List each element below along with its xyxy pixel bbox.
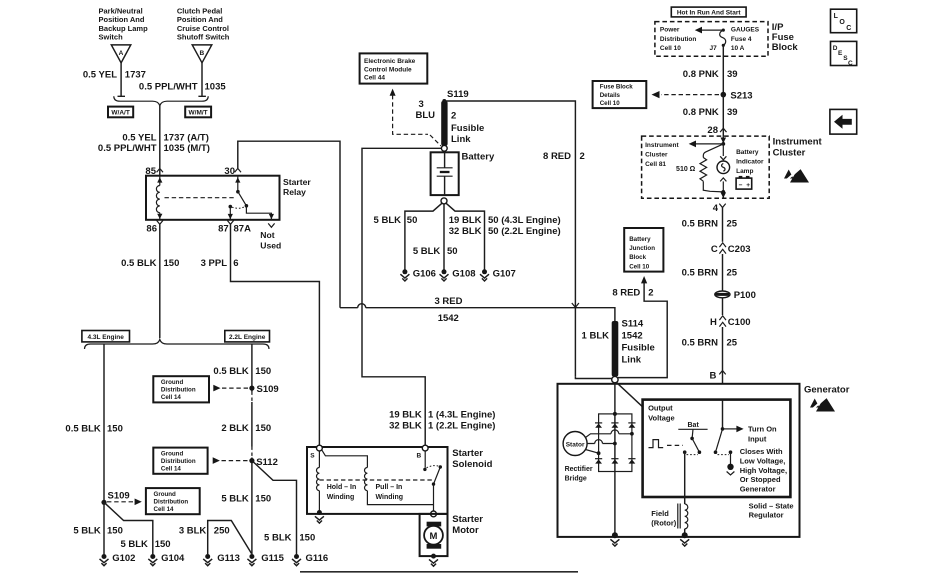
svg-text:C203: C203 — [728, 244, 751, 255]
svg-text:BLU: BLU — [416, 110, 436, 121]
svg-text:32 BLK: 32 BLK — [449, 226, 482, 237]
svg-text:Ground: Ground — [161, 450, 184, 457]
svg-text:G107: G107 — [493, 269, 516, 280]
label 19 BLK 1 (4.3L Engine) — [389, 409, 495, 420]
diode D4 (bottom left) — [595, 459, 602, 464]
svg-text:G102: G102 — [112, 553, 135, 564]
svg-text:5 BLK: 5 BLK — [264, 532, 292, 543]
ground G116 — [292, 553, 328, 566]
wire S112 to G116 — [252, 461, 297, 554]
svg-text:J7: J7 — [710, 45, 718, 52]
svg-text:Cell 10: Cell 10 — [629, 263, 650, 270]
starter motor terminal node — [431, 511, 437, 517]
I/P fuse block dashed box — [655, 22, 768, 57]
svg-text:25: 25 — [727, 337, 738, 348]
svg-text:Cell 81: Cell 81 — [645, 161, 666, 168]
ground G115 — [247, 553, 284, 566]
diode D3 (top right) — [628, 423, 635, 428]
svg-text:50 (4.3L Engine): 50 (4.3L Engine) — [488, 215, 561, 226]
svg-text:O: O — [839, 19, 845, 26]
svg-text:W/A/T: W/A/T — [111, 110, 129, 117]
svg-text:Control Module: Control Module — [364, 66, 412, 73]
GAUGES Fuse 4 10 A label — [731, 27, 760, 52]
svg-text:Solid – State: Solid – State — [749, 501, 794, 510]
svg-text:50 (2.2L Engine): 50 (2.2L Engine) — [488, 226, 561, 237]
wire from pin 30 up and over to 3 RED corner — [238, 141, 340, 308]
svg-text:G116: G116 — [306, 553, 329, 564]
svg-text:Not: Not — [260, 230, 274, 240]
node: fusible link lower terminal — [441, 145, 447, 151]
arrow to Power Distribution — [695, 27, 725, 34]
svg-text:86: 86 — [146, 224, 157, 235]
ground G107 — [480, 269, 516, 281]
svg-text:Switch: Switch — [99, 32, 124, 41]
svg-text:1737: 1737 — [125, 70, 146, 81]
svg-text:G108: G108 — [452, 269, 475, 280]
svg-text:8 RED: 8 RED — [543, 151, 571, 162]
I/P fuse block label — [772, 22, 799, 53]
svg-text:250: 250 — [214, 526, 230, 537]
svg-text:19 BLK: 19 BLK — [449, 215, 482, 226]
splice S213 with dashed reference — [652, 90, 753, 101]
svg-text:Regulator: Regulator — [749, 511, 784, 520]
wire battery top to 8 RED drop — [444, 101, 575, 377]
svg-text:Shutoff Switch: Shutoff Switch — [177, 32, 230, 41]
svg-text:1035 (M/T): 1035 (M/T) — [164, 143, 210, 154]
node: S119 junction dot — [442, 99, 446, 103]
svg-text:Winding: Winding — [327, 494, 355, 501]
svg-text:510 Ω: 510 Ω — [676, 166, 696, 173]
svg-text:0.5 YEL: 0.5 YEL — [122, 133, 156, 144]
generator box — [558, 384, 800, 537]
resistor 510 ohm — [676, 144, 723, 192]
ground G113 — [203, 553, 240, 566]
wire G113 branch — [208, 521, 252, 555]
wire S109 to G102 — [103, 502, 105, 554]
svg-text:150: 150 — [155, 539, 171, 550]
2.2L Engine tag — [225, 331, 270, 342]
label 5 BLK 150 (2.2L to G115) — [221, 493, 271, 504]
svg-text:0.5 BLK: 0.5 BLK — [213, 366, 249, 377]
generator main feed wire — [614, 383, 616, 414]
svg-text:Link: Link — [451, 134, 471, 145]
rectifier bridge box — [599, 414, 632, 472]
wire 1 BLK from 8 RED drop to S114 — [575, 377, 611, 379]
svg-text:2: 2 — [580, 151, 585, 162]
battery G: box — [431, 152, 459, 195]
wire 0.5 YEL 1737 from connector A — [118, 63, 126, 97]
brace joining A/B wires — [114, 96, 208, 106]
svg-text:0.8 PNK: 0.8 PNK — [683, 107, 719, 118]
relay pin 87 contact — [228, 205, 245, 220]
svg-text:Used: Used — [260, 240, 281, 250]
control square-wave symbol — [649, 440, 684, 448]
stator phase wire 1 — [586, 430, 634, 438]
connector A (Park/Neutral switch) — [111, 45, 131, 63]
fuse F4 symbol — [720, 30, 726, 45]
svg-text:S213: S213 — [730, 90, 752, 101]
svg-text:32 BLK: 32 BLK — [389, 421, 422, 432]
hold-in winding — [316, 451, 356, 512]
rectifier bridge label — [565, 466, 593, 483]
label 8 RED 2 (right side) — [543, 151, 585, 162]
fusible link S119 (thick bar) — [441, 101, 447, 146]
diode D6 (bottom right) — [628, 459, 635, 464]
wire P100 to C100 — [722, 298, 724, 315]
svg-text:Hold – In: Hold – In — [327, 484, 357, 491]
svg-text:50: 50 — [447, 246, 458, 257]
svg-text:Distribution: Distribution — [660, 36, 696, 43]
svg-text:C: C — [848, 60, 853, 67]
svg-text:0.5 BRN: 0.5 BRN — [682, 337, 719, 348]
svg-text:S119: S119 — [447, 89, 469, 100]
svg-text:Motor: Motor — [452, 525, 479, 536]
splice S109 (4.3L) — [101, 491, 129, 505]
svg-text:5 BLK: 5 BLK — [221, 493, 249, 504]
label 2 / Fusible Link — [451, 110, 484, 145]
Battery Junction Block Cell 10 box — [624, 228, 663, 272]
pin 30 — [224, 166, 241, 177]
label 5 BLK 50 (left) — [374, 215, 418, 226]
ground G102 — [100, 553, 136, 566]
rectifier bridge center leg — [614, 414, 616, 533]
svg-text:Instrument: Instrument — [645, 142, 679, 149]
svg-text:High Voltage,: High Voltage, — [740, 466, 787, 475]
svg-text:Low Voltage,: Low Voltage, — [740, 457, 786, 466]
svg-text:Relay: Relay — [283, 187, 306, 197]
label 0.8 PNK 39 (upper) — [683, 69, 738, 80]
starter motor box — [420, 514, 448, 556]
battery icon — [736, 176, 752, 189]
svg-text:Battery: Battery — [736, 149, 759, 156]
svg-text:150: 150 — [164, 258, 180, 269]
W/M/T tag — [185, 107, 211, 118]
svg-text:Cluster: Cluster — [773, 147, 806, 158]
wire battery to G106 — [405, 203, 442, 270]
label 5 BLK 150 (G116) — [264, 532, 315, 543]
svg-text:G115: G115 — [261, 553, 284, 564]
scan artifact line at bottom — [300, 571, 578, 573]
ground G104 — [148, 553, 185, 566]
label 5 BLK 150 (G104) — [120, 539, 170, 550]
svg-text:1542: 1542 — [438, 313, 459, 324]
starter solenoid box — [307, 447, 448, 514]
relay switch from pin 30 — [235, 176, 274, 220]
svg-text:Field: Field — [651, 509, 669, 518]
svg-text:G106: G106 — [413, 269, 436, 280]
svg-text:150: 150 — [255, 423, 271, 434]
4.3L Engine tag — [82, 331, 130, 342]
splice S109 (2.2L) — [249, 384, 278, 402]
label 0.5 BRN 25 (middle) — [682, 268, 738, 279]
dashed reference to Ground Distribution (4.3L S109) — [107, 499, 142, 506]
svg-text:Fuse Block: Fuse Block — [600, 84, 634, 91]
svg-text:0.5 YEL: 0.5 YEL — [83, 70, 117, 81]
svg-text:150: 150 — [299, 532, 315, 543]
svg-text:1 (2.2L Engine): 1 (2.2L Engine) — [428, 421, 495, 432]
W/A/T tag — [108, 107, 133, 118]
svg-text:H: H — [710, 317, 717, 328]
wire 0.5 BRN 25 (C203 to P100) — [722, 254, 724, 291]
field (rotor) winding — [678, 452, 688, 533]
svg-text:39: 39 — [727, 107, 738, 118]
Fuse Block Details Cell 10 box — [593, 81, 647, 108]
Bat contact — [678, 422, 707, 429]
battery indicator lamp — [717, 144, 730, 194]
svg-text:S114: S114 — [622, 319, 644, 330]
svg-text:Generator: Generator — [740, 484, 776, 493]
svg-text:Cluster: Cluster — [645, 152, 668, 159]
svg-text:1035: 1035 — [205, 82, 227, 93]
svg-text:Instrument: Instrument — [773, 136, 823, 147]
svg-text:Cell 10: Cell 10 — [600, 100, 621, 107]
svg-text:C: C — [711, 244, 718, 255]
svg-text:10 A: 10 A — [731, 45, 745, 52]
svg-text:Cell 14: Cell 14 — [161, 394, 182, 401]
engine harness brace — [85, 339, 270, 349]
svg-text:19 BLK: 19 BLK — [389, 409, 422, 420]
instrument cluster label — [773, 136, 823, 158]
svg-text:Details: Details — [600, 92, 621, 99]
svg-text:28: 28 — [707, 125, 718, 136]
connector C100 — [710, 316, 750, 328]
wire 0.5 BLK 150 from pin 86 to engine brace — [159, 224, 161, 338]
svg-text:P100: P100 — [734, 290, 756, 301]
svg-text:B: B — [710, 371, 717, 382]
stator phase wire 3 — [586, 450, 601, 456]
svg-text:2: 2 — [648, 287, 653, 298]
label 19 BLK 50 (4.3L Engine) — [449, 215, 561, 226]
label 2 BLK 150 — [221, 423, 271, 434]
svg-text:Ground: Ground — [161, 379, 184, 386]
cluster output wire with arrow — [721, 192, 727, 198]
svg-text:C100: C100 — [728, 317, 751, 328]
starter solenoid label — [452, 448, 492, 470]
svg-text:39: 39 — [727, 69, 738, 80]
label 3 RED 1542 — [435, 296, 463, 324]
hold-in winding ground — [315, 510, 324, 523]
svg-text:−: − — [739, 182, 743, 189]
svg-text:Fusible: Fusible — [451, 123, 484, 134]
dashed wire to EBCM with arrow — [390, 89, 441, 146]
svg-text:S109: S109 — [257, 384, 279, 395]
wire 0.8 PNK 39 (fuse to S213) — [722, 45, 724, 94]
svg-text:Voltage: Voltage — [648, 414, 675, 423]
wire 3 RED 1542 (horizontal run to S114) — [340, 308, 615, 322]
label 0.5 BRN 25 (lower) — [682, 337, 738, 348]
svg-text:Block: Block — [629, 254, 646, 261]
Hot In Run And Start tag — [671, 7, 746, 17]
svg-text:S112: S112 — [256, 457, 278, 468]
label 5 BLK 150 (G102) — [73, 526, 123, 537]
svg-text:Bridge: Bridge — [565, 475, 587, 482]
wire 0.5 BLK 150 (4.3L column) — [103, 345, 105, 501]
label 5 BLK 50 (center) — [413, 246, 458, 257]
svg-text:2 BLK: 2 BLK — [221, 423, 249, 434]
motor M symbol with brushes — [424, 522, 443, 549]
wire battery to G108 — [443, 204, 445, 270]
svg-text:Distribution: Distribution — [161, 458, 196, 465]
Turn On Input label — [748, 425, 777, 444]
svg-text:GAUGES: GAUGES — [731, 27, 760, 34]
svg-text:Block: Block — [772, 42, 799, 53]
svg-text:Electronic Brake: Electronic Brake — [364, 58, 416, 65]
wire to regulator output voltage — [616, 382, 642, 407]
svg-text:Starter: Starter — [283, 177, 311, 187]
Ground Distribution Cell 14 box (bottom left) — [146, 488, 200, 514]
Park/Neutral Position And Backup Lamp Switch label — [99, 7, 149, 42]
svg-text:6: 6 — [233, 258, 238, 269]
grommet P100 — [715, 290, 756, 301]
svg-text:Cell 14: Cell 14 — [154, 506, 175, 513]
svg-text:3 RED: 3 RED — [435, 296, 463, 307]
svg-text:5 BLK: 5 BLK — [374, 215, 402, 226]
svg-text:1737 (A/T): 1737 (A/T) — [164, 133, 209, 144]
wire 0.8 PNK 39 (S213 to cluster) — [722, 95, 724, 128]
svg-text:3 PPL: 3 PPL — [201, 258, 228, 269]
svg-text:0.5 BRN: 0.5 BRN — [682, 218, 719, 229]
svg-text:M: M — [430, 531, 438, 542]
svg-text:Fuse 4: Fuse 4 — [731, 36, 752, 43]
regulator field switch — [683, 429, 701, 454]
pin 87 / 87A — [218, 220, 251, 234]
solenoid contact switch — [423, 451, 442, 511]
svg-text:Rectifier: Rectifier — [565, 466, 593, 473]
node: S114 junction terminal — [612, 376, 618, 382]
svg-text:5 BLK: 5 BLK — [120, 539, 148, 550]
ground G106 — [400, 269, 436, 281]
svg-text:5 BLK: 5 BLK — [73, 526, 101, 537]
svg-text:1 BLK: 1 BLK — [582, 330, 610, 341]
svg-text:150: 150 — [107, 423, 123, 434]
Not Used stub below 87A — [260, 223, 281, 250]
svg-text:0.8 PNK: 0.8 PNK — [683, 69, 719, 80]
Battery Indicator Lamp label — [736, 149, 764, 175]
label 8 RED 2 (to junction block) — [612, 287, 653, 298]
svg-text:B: B — [417, 453, 422, 460]
relay coil (pin 85 to 86) — [156, 176, 162, 220]
junction chevron where 8 RED meets 3 RED — [572, 303, 579, 307]
label 0.5 BRN 25 (upper) — [682, 218, 738, 229]
svg-text:Or Stopped: Or Stopped — [740, 475, 781, 484]
label 3 BLK 250 — [179, 526, 230, 537]
svg-text:150: 150 — [255, 493, 271, 504]
svg-text:W/M/T: W/M/T — [189, 110, 208, 117]
back-arrow tag — [830, 109, 857, 134]
svg-text:Distribution: Distribution — [154, 498, 189, 505]
svg-text:1542: 1542 — [622, 330, 643, 341]
svg-text:S109: S109 — [108, 491, 130, 502]
generator ground (field) — [680, 532, 689, 546]
pin 28 — [707, 125, 726, 136]
svg-text:Distribution: Distribution — [161, 387, 196, 394]
label 0.5 BLK 150 (4.3L) — [65, 423, 122, 434]
svg-text:4: 4 — [713, 203, 719, 214]
wire 0.5 BLK 150 (2.2L column) — [251, 345, 253, 555]
stator phase wire 2 — [587, 440, 617, 446]
svg-text:Cell 44: Cell 44 — [364, 75, 385, 82]
svg-text:0.5 BLK: 0.5 BLK — [121, 258, 157, 269]
wire battery to G107 — [446, 203, 485, 270]
svg-text:87: 87 — [218, 224, 229, 235]
label 0.5 PPL/WHT 1035 — [139, 82, 226, 93]
arrow to Instrument Cluster Cell 81 — [689, 141, 724, 148]
svg-text:Input: Input — [748, 435, 767, 444]
terminal B — [417, 445, 429, 459]
svg-text:Cell 10: Cell 10 — [660, 45, 681, 52]
svg-text:Pull – In: Pull – In — [376, 484, 403, 491]
wire S109 to G104 — [104, 502, 153, 554]
instrument cluster dashed box — [642, 136, 770, 198]
label 3 PPL 6 — [201, 258, 239, 269]
relay coil-to-switch dashed link — [165, 197, 236, 199]
label 0.5 BLK 150 — [121, 258, 179, 269]
pin 4 — [713, 203, 726, 214]
Electronic Brake Control Module Cell 44 box — [360, 53, 428, 83]
DESC tag — [831, 41, 857, 67]
svg-text:Starter: Starter — [452, 448, 483, 459]
Ground Distribution Cell 14 box (S112) — [153, 448, 207, 474]
svg-text:0.5 PPL/WHT: 0.5 PPL/WHT — [98, 143, 157, 154]
svg-text:25: 25 — [727, 218, 738, 229]
svg-text:Indicator: Indicator — [736, 159, 764, 166]
node: battery negative terminal — [441, 198, 447, 204]
Power Distribution Cell 10 label — [660, 27, 696, 52]
svg-text:25: 25 — [727, 268, 738, 279]
Instrument Cluster Cell 81 label — [645, 142, 679, 168]
connector B (Clutch Pedal switch) — [192, 45, 212, 63]
svg-text:4.3L Engine: 4.3L Engine — [88, 334, 125, 341]
svg-text:Solenoid: Solenoid — [452, 459, 492, 470]
svg-text:(Rotor): (Rotor) — [651, 519, 676, 528]
wire from link terminal to solenoid B — [362, 148, 441, 445]
svg-text:Lamp: Lamp — [736, 168, 753, 175]
svg-text:A: A — [119, 50, 124, 57]
generator ground (bridge) — [610, 532, 619, 546]
svg-text:3 BLK: 3 BLK — [179, 526, 207, 537]
svg-text:3: 3 — [419, 99, 424, 110]
label 0.5 PPL/WHT 1035 (M/T) — [98, 143, 210, 154]
starter motor label — [452, 514, 483, 536]
pin 85 — [145, 166, 163, 177]
wire 0.5 BRN 25 (C100 to generator B) — [722, 327, 724, 370]
label 0.8 PNK 39 (lower) — [683, 107, 738, 118]
svg-text:C: C — [846, 25, 851, 32]
svg-text:2.2L Engine: 2.2L Engine — [229, 334, 266, 341]
svg-text:Fusible: Fusible — [622, 342, 655, 353]
svg-text:Power: Power — [660, 27, 680, 34]
label 3 BLU — [416, 99, 436, 121]
dashed reference from box to S109 (2.2L) — [213, 385, 249, 392]
svg-text:Winding: Winding — [376, 494, 404, 501]
svg-text:87A: 87A — [234, 224, 252, 235]
svg-text:0.5 BLK: 0.5 BLK — [65, 423, 101, 434]
crossover hop of 3 RED over battery-to-B wire — [358, 304, 366, 308]
field rotor label — [651, 509, 676, 528]
pin B (generator) — [710, 371, 726, 384]
svg-text:2: 2 — [451, 110, 456, 121]
wire 3 PPL 6 from pin 87 to solenoid S — [231, 224, 320, 445]
svg-text:Battery: Battery — [462, 151, 495, 162]
wire 0.5 BRN 25 (pin 4 to C203) — [722, 208, 724, 242]
label 0.5 YEL 1737 — [83, 70, 146, 81]
svg-text:8 RED: 8 RED — [612, 287, 640, 298]
fusible link S114 (thick bar) — [612, 321, 619, 377]
splice S112 — [249, 447, 278, 468]
svg-text:Output: Output — [648, 404, 673, 413]
S114 1542 Fusible Link label — [622, 319, 655, 366]
svg-text:Closes With: Closes With — [740, 447, 783, 456]
